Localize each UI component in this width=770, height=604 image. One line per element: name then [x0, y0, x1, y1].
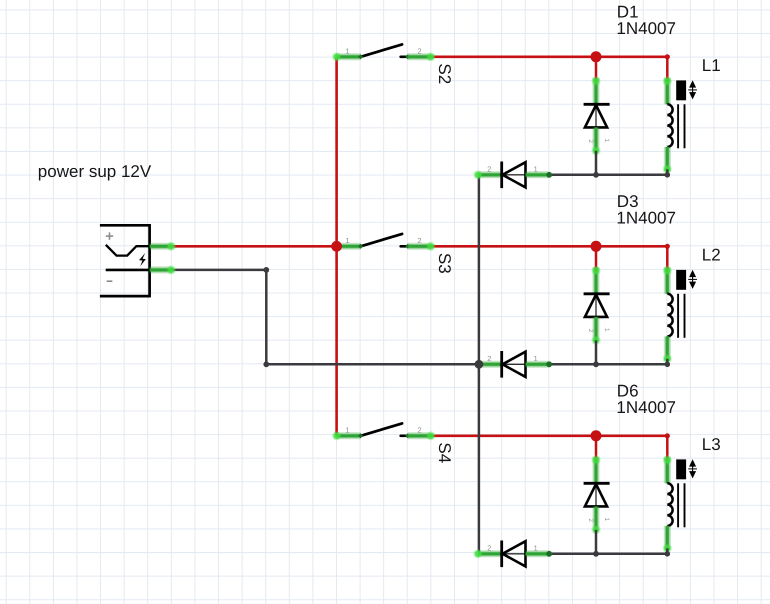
svg-text:power sup 12V: power sup 12V — [38, 162, 152, 181]
switch S4 — [332, 423, 454, 463]
diode row C (horizontal, unlabeled) — [478, 541, 552, 568]
svg-text:1N4007: 1N4007 — [616, 398, 676, 417]
svg-text:1: 1 — [534, 543, 538, 552]
svg-text:1N4007: 1N4007 — [616, 19, 676, 38]
node: D6 bottom junction — [593, 551, 599, 557]
svg-text:2: 2 — [417, 426, 421, 435]
svg-text:1: 1 — [603, 328, 610, 332]
svg-text:2: 2 — [587, 329, 594, 333]
svg-text:L2: L2 — [702, 246, 721, 265]
svg-text:S4: S4 — [435, 442, 454, 463]
svg-text:2: 2 — [487, 354, 491, 363]
power supply - pin — [150, 266, 172, 273]
node: D1 top junction — [591, 51, 602, 62]
node: row A left wire end — [473, 170, 482, 179]
inductor L1 — [663, 54, 697, 177]
wire: row A return — [549, 174, 667, 177]
svg-text:S2: S2 — [435, 63, 454, 84]
svg-text:1: 1 — [534, 354, 538, 363]
svg-text:2: 2 — [487, 164, 491, 173]
svg-text:2: 2 — [417, 236, 421, 245]
wire: dark return bus vertical — [478, 175, 481, 554]
diode row A (horizontal, unlabeled) — [478, 162, 552, 189]
wire: red S3 to D3 junction to L2 — [431, 245, 667, 248]
svg-text:L1: L1 — [702, 56, 721, 75]
diode D1 — [584, 57, 610, 175]
node: main red junction — [331, 241, 342, 252]
svg-text:2: 2 — [587, 518, 594, 522]
svg-text:1: 1 — [345, 236, 349, 245]
node: negative corner 2 — [263, 361, 269, 367]
node: dark bus junction (row B) — [475, 360, 484, 369]
wire: red S4 to D6 junction to L3 — [431, 434, 667, 437]
svg-text:2: 2 — [587, 139, 594, 143]
wire: red feed from power supply to bus junction — [171, 245, 336, 248]
node: D3 bottom junction — [593, 361, 599, 367]
power supply PS1 "power sup 12V" — [100, 224, 150, 297]
svg-text:2: 2 — [487, 543, 491, 552]
inductor L2 — [663, 244, 697, 367]
node: D6 top junction — [591, 430, 602, 441]
svg-text:S3: S3 — [435, 253, 454, 274]
svg-text:1: 1 — [603, 518, 610, 522]
diode D6 — [584, 436, 610, 554]
inductor L3 — [663, 433, 697, 556]
diode row B (horizontal, unlabeled) — [478, 351, 552, 378]
node: row C left wire end — [473, 549, 482, 558]
svg-text:2: 2 — [417, 47, 421, 56]
svg-text:L3: L3 — [702, 435, 721, 454]
node: D1 bottom junction — [593, 172, 599, 178]
wire: row C return — [549, 553, 667, 556]
wire: red bus vertical — [335, 57, 338, 436]
svg-text:1: 1 — [534, 164, 538, 173]
diode D3 — [584, 246, 610, 364]
svg-text:1: 1 — [345, 426, 349, 435]
node: negative corner 1 — [263, 267, 269, 273]
wire: row B return — [549, 363, 667, 366]
wire: negative to dark bus junction — [266, 363, 479, 366]
svg-text:1: 1 — [345, 47, 349, 56]
node: D3 top junction — [591, 241, 602, 252]
wire: negative from supply — [171, 269, 266, 272]
wire: red S2 to D1 junction to L1 — [431, 55, 667, 58]
switch S2 — [332, 44, 454, 84]
switch S3 — [332, 234, 454, 274]
power supply + pin — [150, 243, 172, 250]
svg-text:1: 1 — [603, 139, 610, 143]
wire: negative down segment — [265, 270, 268, 364]
svg-text:1N4007: 1N4007 — [616, 208, 676, 227]
